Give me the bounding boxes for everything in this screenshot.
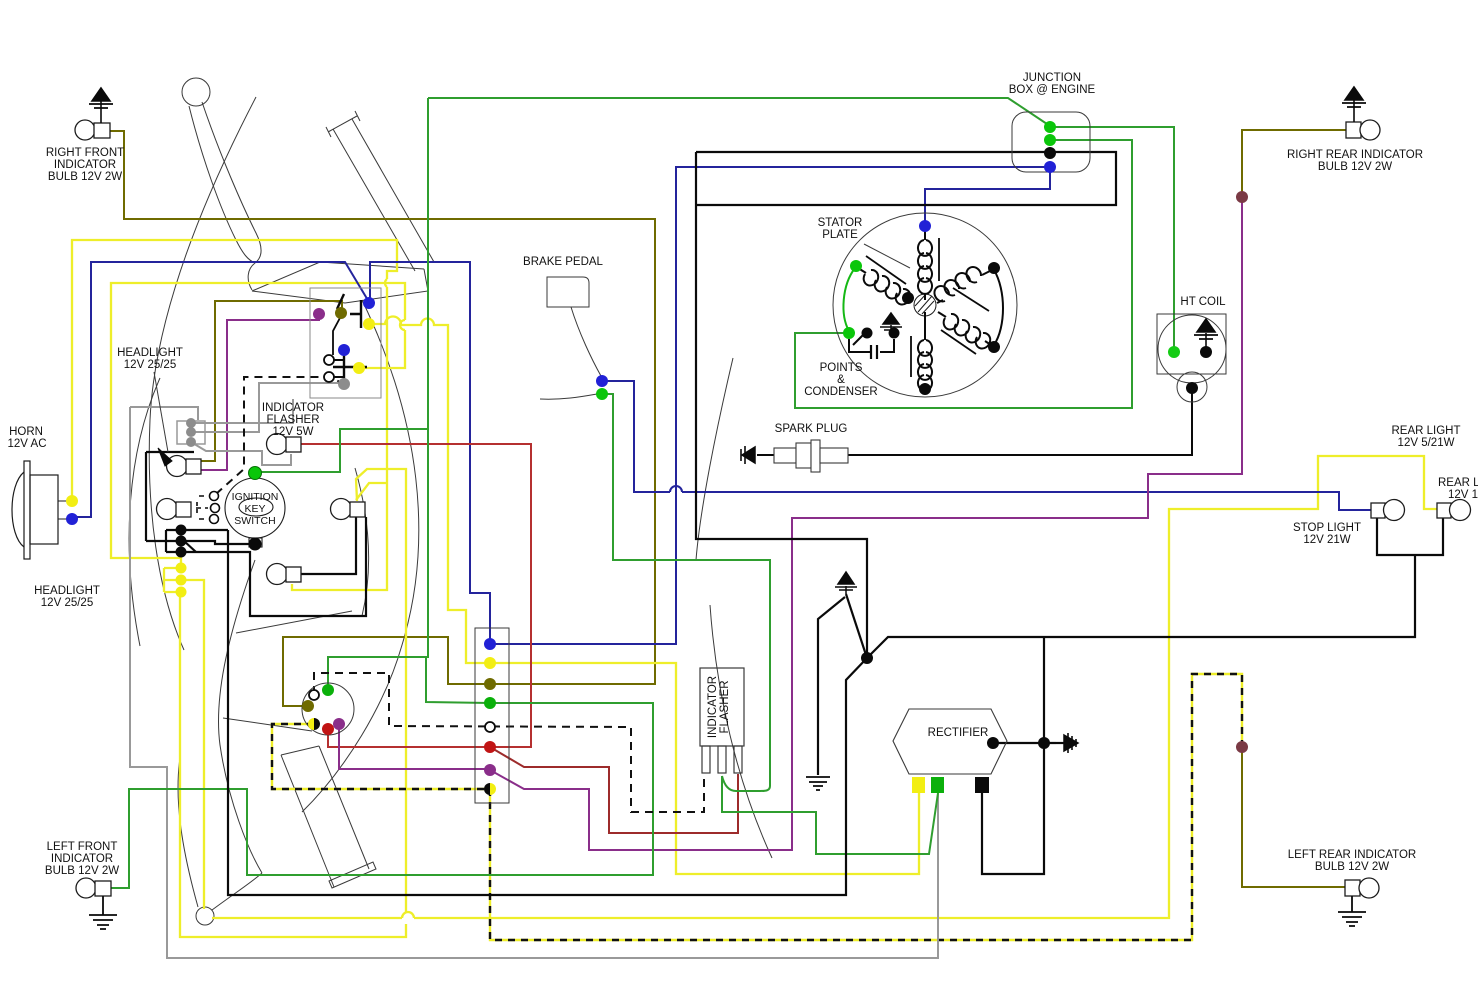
handlebar switch housing bbox=[310, 288, 381, 398]
handlebar left switch circle bbox=[302, 683, 354, 735]
svg-text:IGNITION: IGNITION bbox=[232, 491, 279, 503]
wire: olive right rear indicator bbox=[1242, 130, 1346, 193]
horn bbox=[12, 461, 67, 559]
stator coil right upper bbox=[934, 267, 990, 311]
svg-text:12V 21W: 12V 21W bbox=[1303, 534, 1350, 546]
wire: green brake pedal / flasher unit to rectifier bbox=[603, 394, 938, 854]
wire: black spark plug lead bbox=[757, 390, 1192, 455]
ground antenna above points dot bbox=[835, 572, 857, 594]
stator coil left bbox=[858, 256, 912, 304]
brake pedal bbox=[540, 277, 601, 399]
wire: dashed ignition to handlebar cluster bbox=[216, 377, 341, 494]
svg-text:&: & bbox=[837, 374, 845, 386]
svg-text:12V 5/21W: 12V 5/21W bbox=[1398, 437, 1455, 449]
spark plug bbox=[741, 446, 755, 464]
svg-text:STATOR: STATOR bbox=[818, 217, 863, 229]
svg-text:INDICATOR: INDICATOR bbox=[51, 853, 113, 865]
gray connector block headlight bbox=[177, 421, 205, 444]
wire: green junction to stator bbox=[795, 140, 1132, 408]
wire: navy brake pedal to stop light bbox=[603, 381, 1371, 510]
wire: dashed connector to indicator flasher unit bbox=[314, 673, 704, 812]
svg-text:BRAKE PEDAL: BRAKE PEDAL bbox=[523, 256, 603, 268]
wire: black rear light earths bbox=[1377, 518, 1443, 555]
svg-text:RIGHT FRONT: RIGHT FRONT bbox=[46, 147, 124, 159]
svg-text:INDICATOR: INDICATOR bbox=[54, 159, 116, 171]
svg-text:KEY: KEY bbox=[244, 503, 265, 515]
brake pedal switch dots bbox=[596, 375, 608, 387]
speedo bulb bbox=[267, 564, 302, 585]
wire: yellow headlight main beam loop to bulbs bbox=[180, 469, 406, 937]
black feed connector dots bbox=[176, 525, 187, 536]
wire: navy horn to brake switch and junction box bbox=[73, 167, 1050, 644]
svg-text:BULB 12V 2W: BULB 12V 2W bbox=[1318, 161, 1392, 173]
indicator flasher 12V 5W bulb bbox=[267, 434, 302, 455]
stator coil top bbox=[918, 228, 939, 300]
main harness connector block bbox=[475, 628, 509, 803]
svg-text:JUNCTION: JUNCTION bbox=[1023, 72, 1081, 84]
wire: olive net right front indicator to connector bbox=[110, 131, 655, 706]
stator terminal dots bbox=[843, 220, 1000, 395]
svg-text:INDICATOR: INDICATOR bbox=[707, 676, 719, 738]
leader line headlight label bbox=[154, 372, 168, 452]
svg-text:BULB 12V 2W: BULB 12V 2W bbox=[1315, 861, 1389, 873]
svg-text:LEFT REAR INDICATOR: LEFT REAR INDICATOR bbox=[1288, 849, 1416, 861]
svg-text:REAR LIGHT: REAR LIGHT bbox=[1391, 425, 1460, 437]
dimmer switch contacts bbox=[196, 492, 220, 524]
horn terminal dots bbox=[66, 495, 78, 507]
left front indicator bulb bbox=[76, 878, 111, 898]
rectifier body bbox=[893, 709, 1007, 774]
wire: gray headlight shell ground to rectifier bbox=[130, 407, 938, 958]
junction box terminals bbox=[1044, 121, 1056, 173]
svg-text:REAR LIGHT: REAR LIGHT bbox=[1438, 477, 1478, 489]
wire: olive left rear indicator bbox=[1242, 750, 1345, 887]
antenna right front bbox=[89, 88, 113, 123]
ground left rear bbox=[1338, 896, 1366, 926]
svg-text:POINTS: POINTS bbox=[820, 362, 863, 374]
left switch terminals bbox=[302, 684, 345, 735]
wire: yellow-black dashed left indicator circuit bbox=[272, 674, 1242, 940]
stator crank center bbox=[914, 294, 936, 316]
svg-text:PLATE: PLATE bbox=[822, 229, 858, 241]
svg-text:BOX @ ENGINE: BOX @ ENGINE bbox=[1009, 84, 1096, 96]
ground left front bbox=[89, 896, 117, 929]
ignition terminals bbox=[249, 467, 262, 480]
stop light bulb bbox=[1371, 500, 1405, 521]
svg-text:BULB 12V 2W: BULB 12V 2W bbox=[48, 171, 122, 183]
svg-text:BULB 12V 2W: BULB 12V 2W bbox=[45, 865, 119, 877]
stator plate circle bbox=[833, 213, 1017, 397]
wire: purple indicator circuit to right rear bbox=[339, 201, 1242, 850]
wire: purple headlight high beam to handlebar switch bbox=[201, 315, 319, 470]
wire: red indicator flasher bulb to connector and flasher unit bbox=[301, 444, 531, 747]
wire: black rectifier output and earth bbox=[982, 637, 1056, 874]
svg-text:STOP LIGHT: STOP LIGHT bbox=[1293, 522, 1361, 534]
right rear indicator bulb bbox=[1346, 120, 1380, 140]
handlebar cluster terminal dots bbox=[313, 297, 375, 390]
leader line stator label bbox=[864, 244, 910, 268]
chassis ground under stator bbox=[806, 777, 830, 790]
stator coil right lower bbox=[938, 312, 991, 354]
wire: green junction to HT coil bbox=[1050, 127, 1174, 350]
svg-text:SWITCH: SWITCH bbox=[234, 515, 275, 527]
wire: olive dip-switch to headlight low beam bbox=[201, 301, 342, 461]
HT coil terminals bbox=[1168, 346, 1180, 358]
headlight unit bulb high/low bbox=[157, 456, 202, 520]
connector terminals bbox=[484, 638, 496, 795]
wire: green ignition and indicator supply net bbox=[111, 98, 1050, 888]
stator green arc bbox=[843, 268, 855, 331]
indicator flasher rotated label bbox=[707, 676, 731, 738]
HT coil bbox=[1157, 314, 1226, 402]
svg-text:FLASHER: FLASHER bbox=[266, 414, 319, 426]
scooter outline: brake lever knob bbox=[129, 78, 772, 925]
svg-text:RECTIFIER: RECTIFIER bbox=[928, 727, 989, 739]
rectifier terminal dots bbox=[987, 737, 999, 749]
svg-text:12V 5W: 12V 5W bbox=[273, 426, 314, 438]
svg-text:12V 10W: 12V 10W bbox=[1448, 489, 1478, 501]
svg-text:LEFT FRONT: LEFT FRONT bbox=[47, 841, 118, 853]
pilot bulb near switch bbox=[331, 499, 366, 520]
right front indicator bulb bbox=[75, 120, 110, 140]
rectifier side ground arrow bbox=[1056, 733, 1078, 753]
wire: dark red connector to flasher unit pin bbox=[490, 747, 738, 833]
wire: gray connector block to handlebar cluster bbox=[191, 383, 342, 465]
svg-text:HORN: HORN bbox=[9, 426, 43, 438]
left rear indicator bulb bbox=[1345, 878, 1379, 898]
svg-text:12V 25/25: 12V 25/25 bbox=[41, 597, 93, 609]
maroon junction dots bbox=[1236, 191, 1248, 203]
wire: black ignition switch feeds bbox=[146, 452, 366, 616]
indicator flasher unit bbox=[700, 668, 744, 773]
rectifier pads bbox=[912, 777, 925, 793]
wire: black engine earth frame net bbox=[228, 152, 1415, 895]
front brake switch bar bbox=[337, 294, 361, 328]
stator coil bottom bbox=[911, 312, 932, 391]
stator right arc bbox=[994, 270, 1003, 345]
gray connector dots bbox=[186, 418, 196, 447]
svg-text:HT COIL: HT COIL bbox=[1180, 296, 1226, 308]
svg-text:12V 25/25: 12V 25/25 bbox=[124, 359, 176, 371]
points and condenser bbox=[849, 331, 894, 359]
headlight beam arrow bbox=[158, 448, 172, 466]
antenna right rear bbox=[1342, 87, 1366, 122]
yellow feed connector dots bbox=[164, 568, 181, 592]
svg-text:RIGHT REAR INDICATOR: RIGHT REAR INDICATOR bbox=[1287, 149, 1423, 161]
svg-text:FLASHER: FLASHER bbox=[719, 680, 731, 733]
dip and horn switch cross bbox=[333, 316, 367, 379]
svg-text:SPARK PLUG: SPARK PLUG bbox=[775, 423, 848, 435]
HT coil antenna bbox=[1194, 319, 1218, 350]
ignition key switch bbox=[225, 478, 285, 547]
rear light bulb bbox=[1437, 500, 1471, 521]
svg-text:CONDENSER: CONDENSER bbox=[804, 386, 877, 398]
wire: navy junction box to stator bbox=[925, 167, 1050, 224]
wire: yellow tail light run from dip switch to rear light bbox=[111, 283, 1437, 918]
junction box bbox=[1012, 112, 1090, 172]
wire: yellow front brake switch to connector and rectifier bbox=[369, 316, 919, 874]
wire: yellow horn feed via handlebar down to pilot bulb bbox=[72, 240, 397, 590]
svg-text:12V AC: 12V AC bbox=[8, 438, 47, 450]
svg-text:HEADLIGHT: HEADLIGHT bbox=[117, 347, 183, 359]
svg-text:INDICATOR: INDICATOR bbox=[262, 402, 324, 414]
svg-text:HEADLIGHT: HEADLIGHT bbox=[34, 585, 100, 597]
condenser antenna in stator bbox=[880, 313, 902, 333]
